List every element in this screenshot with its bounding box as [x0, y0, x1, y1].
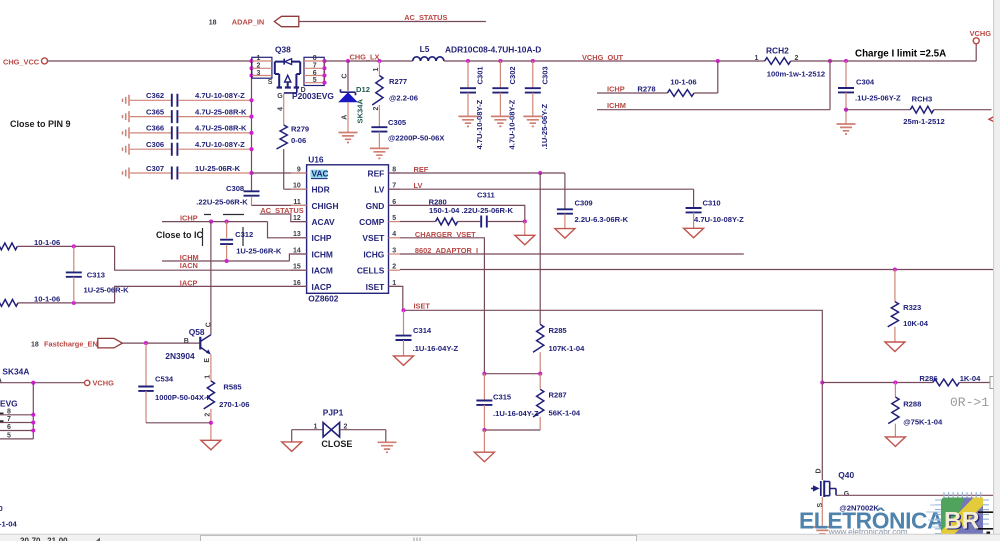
svg-text:8: 8	[7, 408, 11, 415]
svg-text:14: 14	[293, 247, 301, 254]
capacitor C309 2.2U-6.3-06R-K	[557, 173, 629, 229]
svg-text:C315: C315	[493, 393, 512, 402]
svg-text:1000P-50-04X-K: 1000P-50-04X-K	[155, 393, 213, 402]
resistor R278 10-1-06	[637, 61, 717, 96]
stray cursor bars	[203, 227, 244, 246]
net label AC_STATUS (top)	[404, 13, 447, 22]
svg-text:10: 10	[293, 183, 301, 190]
ground (bars) under C305	[370, 148, 389, 158]
transistor Q38 package right box (pins 8,7,6,5)	[304, 55, 325, 85]
wire CHG_VCC to Q38	[48, 60, 252, 62]
svg-text:Close to IC: Close to IC	[156, 230, 204, 240]
svg-text:VCHG: VCHG	[970, 29, 992, 38]
ground (triangle) under C309	[555, 229, 575, 239]
resistor 10-1-06 (upper left, IACN)	[0, 238, 307, 270]
svg-text:VCHG: VCHG	[93, 379, 115, 388]
svg-text:D: D	[815, 468, 822, 473]
svg-text:2.2U-6.3-06R-K: 2.2U-6.3-06R-K	[575, 215, 629, 224]
svg-text:ISET: ISET	[366, 282, 385, 292]
resistor R285 107K-1-04	[533, 324, 585, 373]
svg-text:4.7U-10-08Y-Z: 4.7U-10-08Y-Z	[508, 99, 517, 149]
net stub ICHP (to R278)	[597, 85, 667, 94]
svg-text:6: 6	[7, 424, 11, 431]
capacitor C315 .1U-16-04Y-Z	[476, 374, 539, 430]
capacitor C302 4.7U-10-08Y-Z	[492, 61, 517, 150]
svg-text:-1-04: -1-04	[0, 519, 18, 528]
net CHARGER_VSET wire from pin 4	[400, 230, 484, 374]
svg-text:CELLS: CELLS	[357, 266, 385, 276]
svg-text:C313: C313	[87, 270, 105, 279]
resistor R280 150-1-04	[400, 198, 514, 225]
svg-text:0-06: 0-06	[291, 136, 306, 145]
svg-text:LV: LV	[374, 185, 384, 195]
U16 pin label VAC (highlighted)	[311, 168, 329, 178]
wire ICHM up to VCHG_OUT rail	[828, 59, 832, 110]
svg-text:1U-25-06R-K: 1U-25-06R-K	[236, 246, 282, 255]
resistor R288 @75K-1-04	[888, 383, 943, 437]
note Close to IC	[156, 230, 204, 240]
resistor R287 56K-1-04	[533, 374, 581, 430]
net stub ICHM	[597, 101, 830, 110]
wire R279 to U16 pin 10 HDR	[284, 149, 307, 189]
ground (bars) under C301	[459, 116, 478, 126]
svg-text:12: 12	[293, 215, 301, 222]
svg-text:4.7U-10-08Y-Z: 4.7U-10-08Y-Z	[195, 140, 245, 149]
capacitor C314 .1U-16-04Y-Z	[396, 310, 459, 356]
svg-text:@75K-1-04: @75K-1-04	[903, 418, 943, 427]
svg-text:1: 1	[205, 375, 212, 379]
svg-text:PJP1: PJP1	[323, 408, 344, 418]
svg-text:5: 5	[7, 433, 11, 440]
svg-text:16: 16	[293, 280, 301, 287]
svg-text:C365: C365	[146, 107, 165, 116]
svg-text:1: 1	[392, 280, 396, 287]
net LV wire from pin 7	[389, 181, 694, 190]
svg-text:L5: L5	[420, 44, 430, 54]
wire PJP1 pin2 to ground	[385, 430, 387, 442]
svg-text:20-70 21-00: 20-70 21-00	[20, 537, 68, 541]
svg-text:R278: R278	[637, 84, 655, 93]
svg-text:C308: C308	[226, 184, 244, 193]
capacitor C306 4.7U-10-08Y-Z	[123, 140, 254, 156]
ground (triangle) under R323	[885, 342, 905, 352]
vertical scrollbar (right edge)	[994, 0, 1000, 541]
svg-text:ICHM: ICHM	[312, 249, 333, 259]
capacitor C301 4.7U-10-08Y-Z	[460, 61, 485, 150]
svg-text:C314: C314	[413, 326, 432, 335]
svg-text:D12: D12	[356, 85, 370, 94]
svg-text:R323: R323	[903, 303, 921, 312]
svg-text:VCHG_OUT: VCHG_OUT	[582, 53, 624, 62]
svg-text:REF: REF	[368, 168, 385, 178]
svg-text:@2200P-50-06X: @2200P-50-06X	[388, 133, 444, 142]
resistor RCH3 25m-1-2512	[846, 94, 992, 126]
capacitor C362 4.7U-10-08Y-Z	[123, 91, 254, 107]
wire Q40 gate to right edge	[836, 494, 993, 496]
svg-text:U16: U16	[308, 155, 324, 165]
resistor R286 1K-04	[919, 374, 997, 388]
svg-text:4.7U-25-08R-K: 4.7U-25-08R-K	[195, 124, 247, 133]
svg-text:E: E	[204, 358, 211, 363]
label SK34A (left edge part)	[2, 366, 29, 376]
svg-text:R277: R277	[389, 77, 407, 86]
stray dash marks above ICHP wire	[204, 214, 244, 216]
wire net VCHG_OUT	[444, 59, 765, 63]
svg-text:2N3904: 2N3904	[165, 351, 195, 361]
svg-text:18: 18	[31, 342, 39, 349]
svg-text:100m-1w-1-2512: 100m-1w-1-2512	[767, 69, 825, 78]
capacitor C310 4.7U-10-08Y-Z	[686, 189, 745, 228]
svg-text:5: 5	[313, 77, 317, 84]
svg-text:REF: REF	[414, 165, 429, 174]
transistor Q38 package left box (pins 1,2,3)	[252, 55, 272, 78]
svg-text:10K-04: 10K-04	[903, 319, 929, 328]
net ICHM wire to pin 14	[162, 254, 307, 263]
svg-text:C305: C305	[388, 118, 407, 127]
svg-text:0: 0	[0, 504, 3, 513]
jumper PJP1 CLOSE	[292, 408, 386, 450]
net connector Fastcharge_EN (pin 18)	[31, 338, 122, 348]
capacitor C312 1U-25-06R-K	[220, 222, 282, 261]
svg-text:6: 6	[313, 70, 317, 77]
wire node C315/R285	[482, 372, 542, 376]
note Close to PIN 9	[10, 119, 71, 129]
net CELLS wire from pin 2	[400, 267, 993, 271]
net REF wire from pin 8	[389, 165, 565, 175]
svg-text:ICHG: ICHG	[363, 249, 384, 259]
wire Q38 gate down	[283, 94, 285, 126]
ground (triangle) under C310	[684, 228, 704, 238]
svg-text:.1U-16-04Y-Z: .1U-16-04Y-Z	[413, 344, 459, 353]
diode D12 SK34A	[339, 61, 370, 132]
svg-text:R287: R287	[549, 390, 567, 399]
svg-text:ISET: ISET	[414, 302, 431, 311]
transistor Q58 2N3904	[165, 322, 212, 362]
svg-text:C304: C304	[856, 78, 875, 87]
resistor R279 0-06	[277, 124, 310, 149]
svg-text:R279: R279	[291, 124, 309, 133]
svg-text:7: 7	[392, 183, 396, 190]
svg-text:C534: C534	[155, 375, 174, 384]
svg-text:8: 8	[392, 166, 396, 173]
label A (left edge)	[0, 377, 2, 384]
inductor L5 ADR10C08-4.7UH-10A-D	[413, 44, 542, 61]
transistor Q38 MOSFET symbol P2003EVG	[268, 59, 306, 100]
horizontal scrollbar (bottom edge)	[0, 534, 1000, 541]
wire ISET node to Q40 drain	[820, 380, 824, 480]
resistor R585 270-1-06	[204, 355, 250, 441]
svg-text:9: 9	[297, 166, 301, 173]
svg-text:C310: C310	[703, 199, 721, 208]
svg-text:IACM: IACM	[312, 266, 333, 276]
net label VCHG_OUT	[582, 53, 624, 62]
net 8602_ADAPTOR_I wire from pin 3	[400, 246, 744, 255]
svg-text:Charge I limit =2.5A: Charge I limit =2.5A	[855, 49, 946, 60]
capacitor C313 1U-25-06R-K	[66, 246, 129, 303]
svg-text:VAC: VAC	[312, 168, 329, 178]
svg-text:C366: C366	[146, 124, 164, 133]
svg-text:4.7U-25-08R-K: 4.7U-25-08R-K	[195, 107, 247, 116]
svg-text:3: 3	[257, 70, 261, 77]
terminal CHG_VCC	[3, 57, 48, 66]
svg-text:CHG_VCC: CHG_VCC	[3, 57, 40, 66]
svg-text:B: B	[184, 338, 189, 345]
svg-text:7: 7	[313, 63, 317, 70]
svg-text:7: 7	[7, 416, 11, 423]
svg-text:ICHM: ICHM	[607, 101, 626, 110]
svg-text:4: 4	[392, 231, 396, 238]
wire C307 junction to U16 pin 9 VAC	[252, 172, 307, 174]
svg-text:270-1-06: 270-1-06	[219, 400, 249, 409]
svg-text:.1U-25-06Y-Z: .1U-25-06Y-Z	[540, 104, 549, 150]
transistor Q40 @2N7002K	[811, 468, 854, 507]
capacitor C534 1000P-50-04X-K	[138, 343, 212, 423]
U16 pin stubs	[291, 173, 400, 286]
label @2N7002K	[839, 504, 879, 513]
wire AC_STATUS to pin 12 ACAV	[260, 214, 307, 222]
wire bus left vertical x=251.5	[251, 61, 253, 191]
svg-text:2: 2	[392, 264, 396, 271]
off-page arrow right of RCH3	[989, 115, 997, 123]
svg-text:ADR10C08-4.7UH-10A-D: ADR10C08-4.7UH-10A-D	[445, 45, 541, 55]
wire Q40 source to ground	[821, 497, 823, 527]
svg-text:RCH2: RCH2	[766, 46, 789, 56]
svg-text:SK34A: SK34A	[356, 99, 365, 124]
svg-text:10-1-06: 10-1-06	[34, 294, 60, 303]
ground (triangle) under C315	[474, 452, 494, 462]
svg-text:ICHP: ICHP	[312, 233, 332, 243]
svg-text:4.7U-10-08Y-Z: 4.7U-10-08Y-Z	[195, 91, 245, 100]
capacitor C304 .1U-25-06Y-Z	[838, 61, 901, 124]
net label CHG_LX	[350, 53, 380, 62]
svg-text:8: 8	[313, 55, 317, 62]
resistor RCH2 100m-1w-1-2512	[755, 46, 826, 79]
U16 right pin labels REF LV GND COMP VSET ICHG CELLS ISET	[357, 168, 385, 291]
svg-text:GND: GND	[366, 201, 385, 211]
svg-text:RCH3: RCH3	[912, 94, 933, 103]
ground (bars) under C303	[523, 116, 542, 126]
svg-text:C301: C301	[476, 66, 485, 85]
junction dots CHG_VCC bus at Q38 pins	[249, 59, 253, 78]
svg-text:OZ8602: OZ8602	[308, 294, 339, 304]
svg-text:EVG: EVG	[0, 398, 18, 408]
net ICHP wire to pin 13	[162, 220, 307, 238]
svg-text:4.7U-10-08Y-Z: 4.7U-10-08Y-Z	[694, 215, 744, 224]
svg-text:C306: C306	[146, 140, 164, 149]
wire node C315 bottom/R287	[482, 428, 540, 432]
op-amp U16 OZ8602 IC body	[307, 155, 389, 304]
U16 left pin labels HDR CHIGH ACAV ICHP ICHM IACM IACP	[312, 185, 339, 292]
svg-text:Q40: Q40	[838, 470, 854, 480]
svg-text:CHIGH: CHIGH	[312, 201, 339, 211]
svg-text:IACN: IACN	[180, 261, 198, 270]
svg-text:C303: C303	[540, 66, 549, 84]
svg-text:BR: BR	[944, 508, 980, 535]
svg-text:.22U-25-06R-K: .22U-25-06R-K	[196, 198, 248, 207]
capacitor C303 .1U-25-06Y-Z	[525, 61, 550, 150]
wire Q38 drain bus	[322, 59, 326, 85]
svg-text:G: G	[277, 93, 283, 100]
svg-text:15: 15	[293, 264, 301, 271]
terminal VCHG (left)	[0, 379, 114, 388]
svg-text:ACAV: ACAV	[312, 217, 336, 227]
ground (triangle) under R288	[885, 437, 905, 447]
svg-text:CLOSE: CLOSE	[321, 439, 352, 449]
net label IACP	[180, 278, 198, 287]
svg-text:10-1-06: 10-1-06	[670, 78, 696, 87]
svg-text:18: 18	[209, 20, 217, 27]
ground (bars) under D12	[339, 133, 358, 143]
ground (triangle) under C314	[394, 356, 414, 366]
net label ICHM (left)	[180, 253, 199, 262]
wire COMP ground node down	[524, 222, 526, 236]
net label AC_STATUS (at U16)	[260, 206, 303, 215]
svg-text:1: 1	[257, 55, 261, 62]
wire Fastcharge_EN to Q58 base	[122, 341, 200, 345]
svg-text:150-1-04 .22U-25-06R-K: 150-1-04 .22U-25-06R-K	[429, 206, 514, 215]
capacitor C365 4.7U-25-08R-K	[123, 107, 254, 123]
watermark logo ELETRONICA BR	[799, 492, 998, 541]
wire PJP1 pin1 to ground	[291, 430, 293, 442]
svg-text:11: 11	[293, 199, 301, 206]
svg-text:R285: R285	[549, 326, 568, 335]
cut-off text 0 (bottom left)	[0, 504, 3, 513]
svg-text:C312: C312	[235, 230, 253, 239]
svg-text:C362: C362	[146, 91, 164, 100]
wire C315 bottom to ground	[483, 430, 485, 452]
ground (triangle) under C311	[515, 235, 535, 245]
svg-text:CHG_LX: CHG_LX	[350, 53, 380, 62]
wire Q58 collector up to ICHP	[210, 222, 212, 335]
capacitor C311 .22U-25-06R-K	[477, 191, 527, 228]
svg-text:0R->1: 0R->1	[950, 395, 989, 410]
svg-text:.1U-16-04Y-Z: .1U-16-04Y-Z	[493, 409, 539, 418]
ground (triangle) under R585	[201, 440, 221, 450]
svg-text:1: 1	[373, 68, 380, 72]
U16 pin numbers 9-16 and 8-1	[293, 166, 396, 286]
wire GND pin 6 to ground node	[389, 205, 525, 221]
resistor R323 10K-04	[888, 270, 929, 343]
svg-text:P2003EVG: P2003EVG	[292, 91, 334, 101]
svg-text:Q58: Q58	[189, 327, 205, 337]
wire net CHG_LX	[325, 59, 413, 63]
ground (bars) under Q40	[813, 527, 832, 537]
wire VCHG_OUT right section	[791, 59, 977, 63]
svg-text:A: A	[0, 377, 2, 384]
ground (bars) under C302	[491, 116, 510, 126]
capacitor C307 1U-25-06R-K	[123, 164, 254, 180]
svg-text:C: C	[342, 73, 349, 78]
svg-text:1: 1	[314, 424, 318, 431]
svg-text:R585: R585	[223, 383, 242, 392]
label Q38	[275, 45, 291, 55]
svg-text:.1U-25-06Y-Z: .1U-25-06Y-Z	[855, 94, 901, 103]
svg-text:S: S	[268, 79, 273, 86]
pin number 4 of Q38 gate	[278, 107, 285, 111]
svg-text:3: 3	[392, 247, 396, 254]
svg-text:COMP: COMP	[359, 217, 385, 227]
svg-text:LV: LV	[414, 181, 423, 190]
svg-text:VSET: VSET	[362, 233, 385, 243]
svg-text:C307: C307	[146, 164, 164, 173]
svg-text:ICHP: ICHP	[180, 213, 198, 222]
svg-text:C311: C311	[477, 191, 496, 200]
net label IACN	[180, 261, 198, 270]
resistor R277 @2.2-06	[372, 61, 418, 127]
svg-text:1U-25-06R-K: 1U-25-06R-K	[195, 164, 241, 173]
svg-text:C309: C309	[575, 199, 593, 208]
svg-text:4.7U-10-08Y-Z: 4.7U-10-08Y-Z	[475, 99, 484, 149]
label P2003EVG	[292, 91, 334, 101]
capacitor C308 .22U-25-06R-K	[196, 184, 306, 207]
svg-text:5: 5	[392, 215, 396, 222]
svg-text:1K-04: 1K-04	[960, 374, 981, 383]
overlay text 0R->	[950, 395, 989, 410]
top net connector ADAP_IN (pin 18)	[209, 16, 299, 26]
svg-text:25m-1-2512: 25m-1-2512	[903, 117, 944, 126]
capacitor C366 4.7U-25-08R-K	[123, 124, 254, 140]
connector EVG (left edge, pins 8,7,6,5)	[0, 383, 35, 440]
cut-off text -1-04 (bottom left)	[0, 519, 18, 528]
svg-text:C302: C302	[508, 66, 517, 84]
svg-text:R288: R288	[903, 400, 921, 409]
svg-text:2: 2	[257, 63, 261, 70]
svg-text:SK34A: SK34A	[2, 366, 29, 376]
net ISET wire from pin 1	[389, 286, 823, 382]
terminal VCHG (top right)	[970, 29, 992, 61]
wire net AC_STATUS (top)	[299, 21, 486, 23]
svg-text:Q38: Q38	[275, 45, 291, 55]
note Charge I limit =2.5A	[855, 49, 946, 60]
svg-text:@2.2-06: @2.2-06	[389, 93, 418, 102]
svg-text:13: 13	[293, 231, 301, 238]
svg-text:56K-1-04: 56K-1-04	[549, 408, 581, 417]
resistor 10-1-06 (lower left, IACP)	[0, 286, 307, 306]
capacitor C305 @2200P-50-06X	[371, 118, 444, 148]
svg-text:AC_STATUS: AC_STATUS	[404, 13, 447, 22]
svg-text:10-1-06: 10-1-06	[34, 238, 60, 247]
svg-text:1U-25-06R-K: 1U-25-06R-K	[84, 286, 130, 295]
ground (bars) under PJP1 pin 2	[378, 442, 397, 452]
svg-text:IACP: IACP	[312, 282, 332, 292]
ground (bars) under C304	[837, 124, 856, 134]
svg-text:107K-1-04: 107K-1-04	[549, 344, 586, 353]
wire ISET node to R288/R286	[822, 380, 933, 384]
svg-text:1: 1	[755, 55, 759, 62]
svg-text:ADAP_IN: ADAP_IN	[232, 18, 264, 27]
svg-text:Fastcharge_EN: Fastcharge_EN	[44, 340, 98, 349]
svg-text:HDR: HDR	[312, 185, 330, 195]
wire C534 bottom to R585 bottom	[146, 422, 211, 424]
wire REF vertical to R285	[539, 173, 541, 324]
svg-text:A: A	[342, 115, 349, 120]
svg-text:ICHP: ICHP	[607, 85, 625, 94]
ground (triangle) under PJP1 pin 1	[282, 442, 302, 452]
net label ICHP (left)	[180, 213, 198, 222]
svg-text:Close to PIN 9: Close to PIN 9	[10, 119, 71, 129]
svg-text:6: 6	[392, 199, 396, 206]
